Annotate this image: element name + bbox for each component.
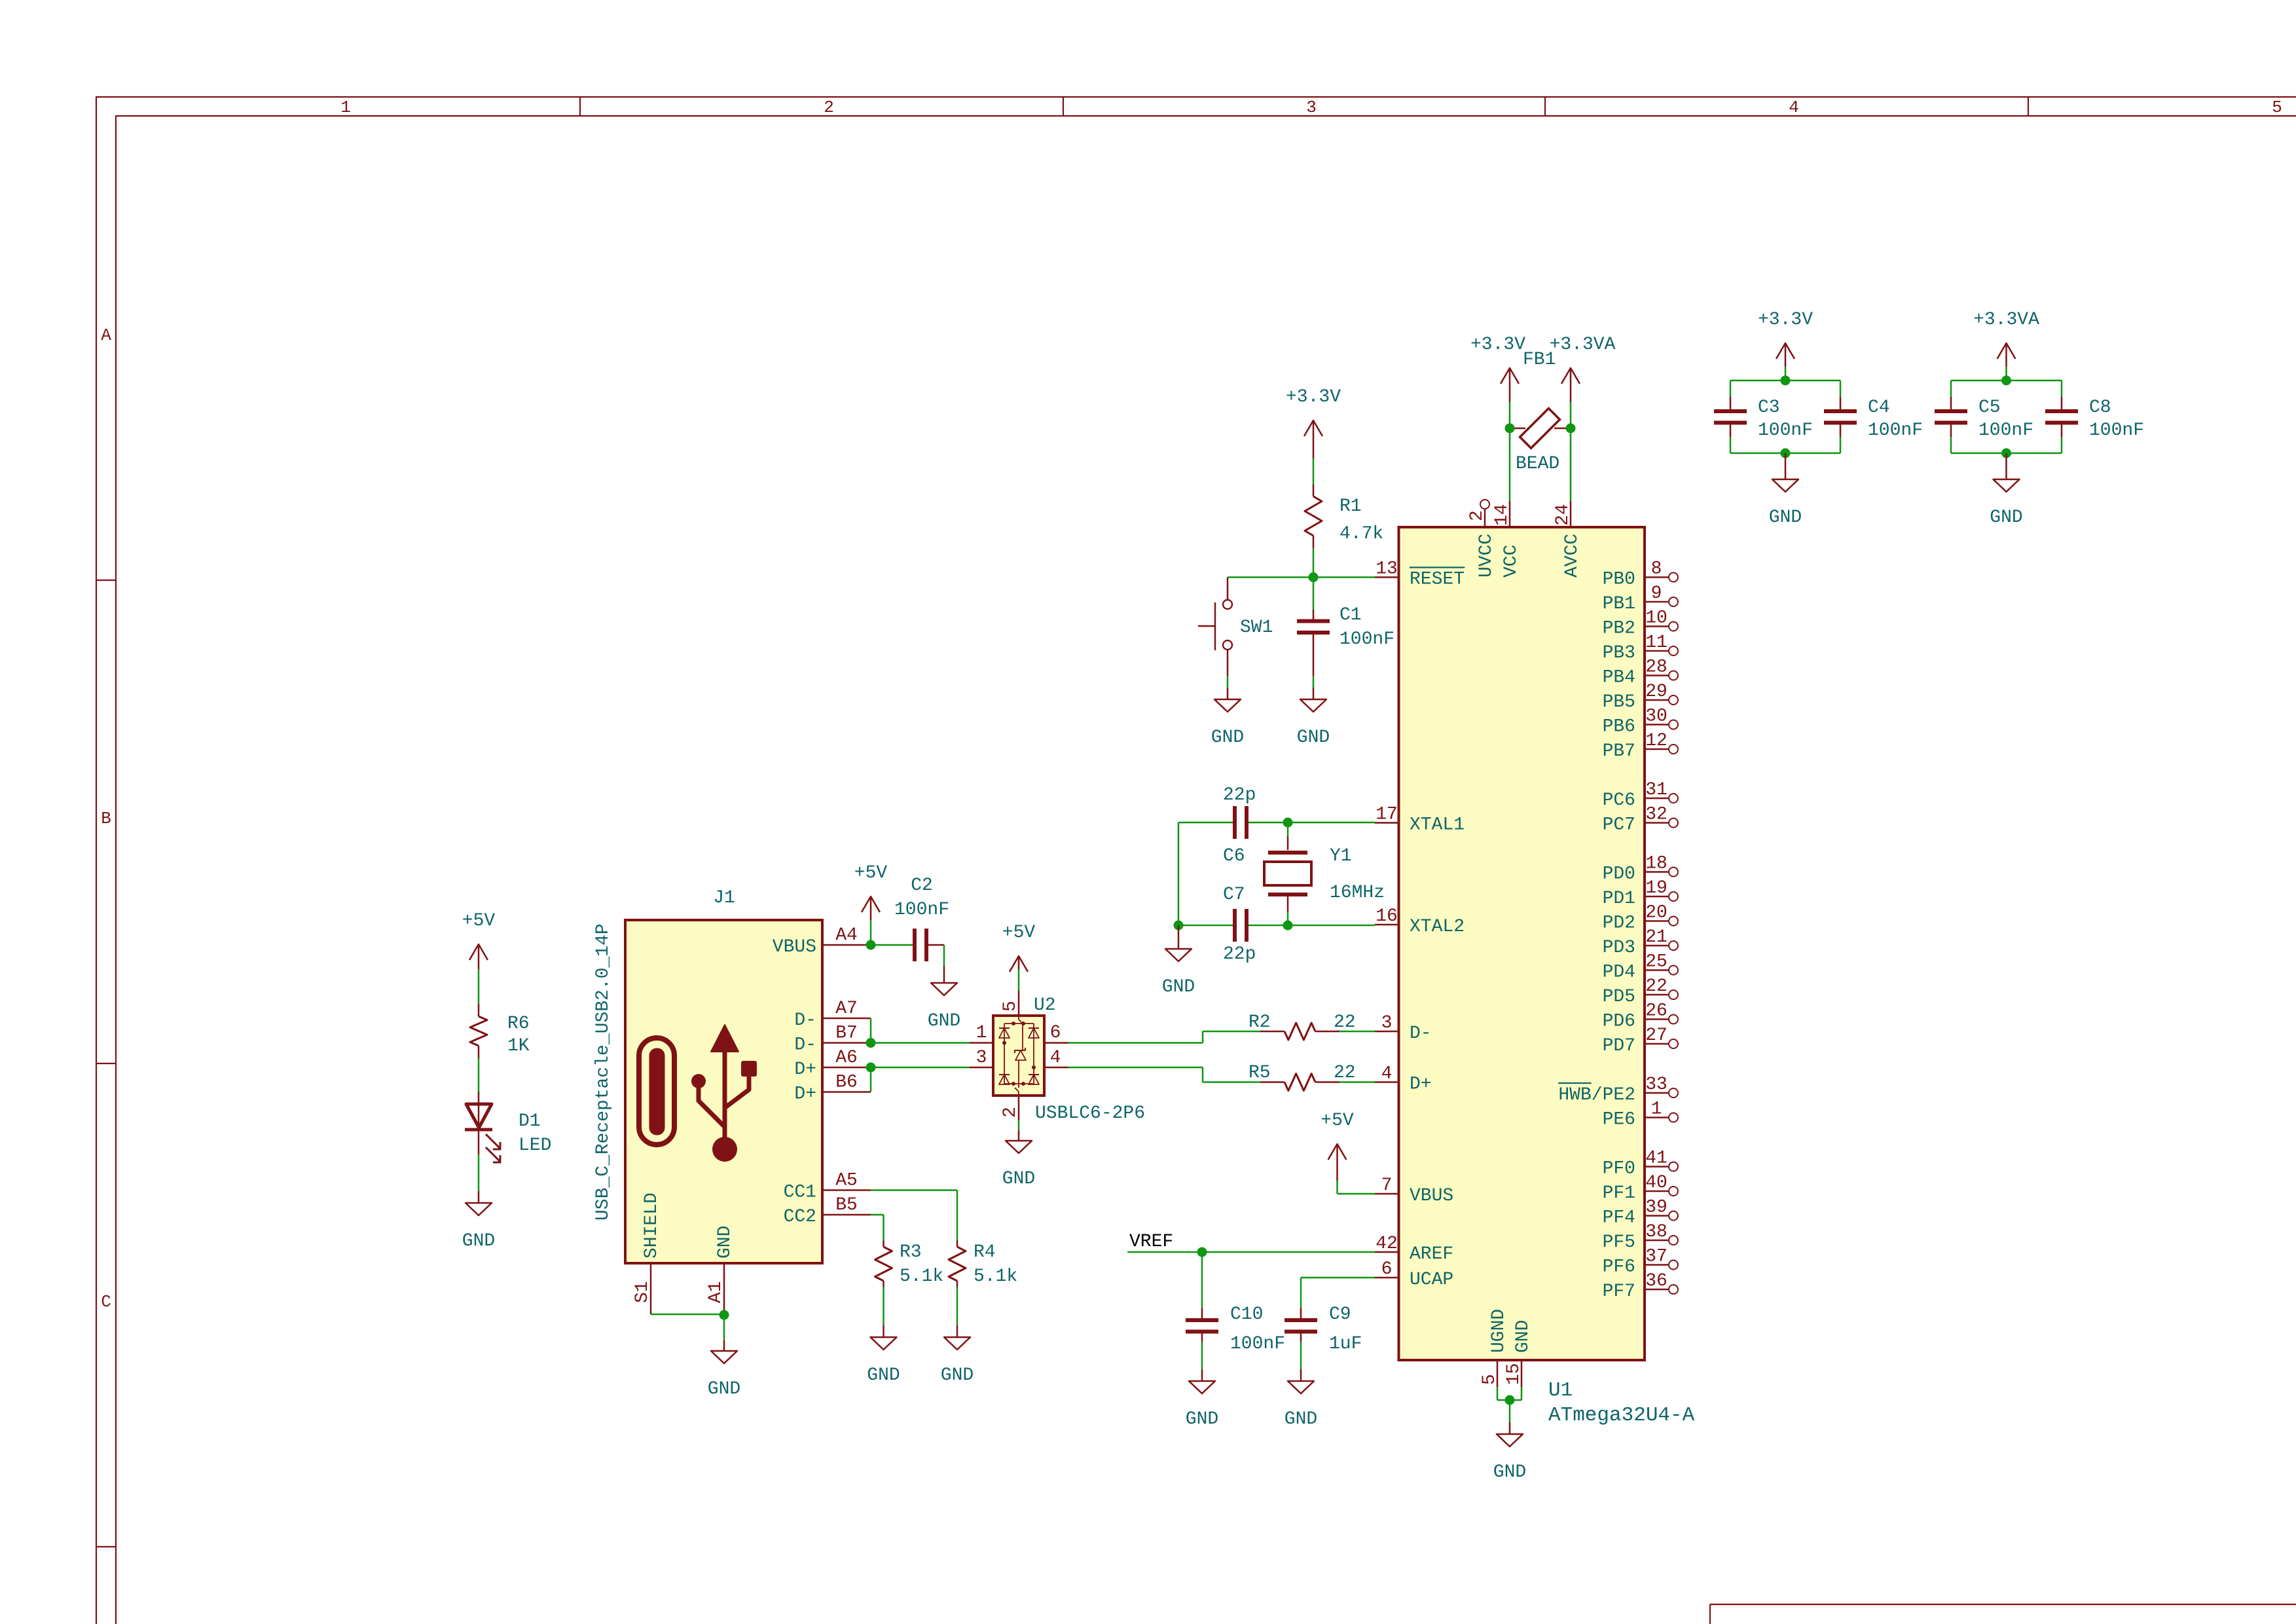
svg-text:PB4: PB4: [1603, 668, 1635, 688]
resistor R3 5.1k: [875, 1240, 944, 1287]
svg-text:6: 6: [1050, 1023, 1061, 1043]
svg-text:PD6: PD6: [1603, 1012, 1635, 1032]
svg-text:+5V: +5V: [1002, 923, 1036, 943]
svg-text:32: 32: [1645, 805, 1667, 825]
svg-text:PD1: PD1: [1603, 889, 1635, 909]
capacitor C1 100nF: [1297, 605, 1394, 676]
svg-text:15: 15: [1504, 1363, 1524, 1385]
junction: [1566, 424, 1576, 434]
wire: [1313, 676, 1315, 688]
svg-text:22p: 22p: [1223, 785, 1256, 805]
resistor R4 5.1k: [949, 1240, 1017, 1287]
ground: [928, 966, 960, 1031]
U1 pin 12 PB7: [1603, 731, 1678, 762]
U1 pin 22 PD5: [1603, 976, 1678, 1007]
wire: [1730, 437, 1840, 453]
svg-text:XTAL2: XTAL2: [1410, 917, 1465, 937]
wire D+ link: [871, 1067, 970, 1092]
power +3.3VA (FB1): [1550, 335, 1616, 428]
J1 pin B6 D+: [794, 1073, 871, 1105]
capacitor C6 22p: [1223, 785, 1256, 866]
svg-text:A: A: [101, 325, 111, 345]
svg-text:USBLC6-2P6: USBLC6-2P6: [1035, 1103, 1145, 1124]
ground: [867, 1325, 900, 1386]
U1 pin 31 PC6: [1603, 780, 1678, 811]
svg-text:GND: GND: [928, 1011, 960, 1031]
svg-text:J1: J1: [713, 888, 735, 908]
svg-text:24: 24: [1553, 504, 1573, 526]
svg-text:GND: GND: [708, 1379, 740, 1399]
svg-text:1K: 1K: [507, 1036, 530, 1056]
U1 pin 33 HWB/PE2: [1558, 1075, 1678, 1105]
junction: [2001, 449, 2011, 458]
wire UCAP: [1301, 1278, 1375, 1308]
wire: [1951, 437, 2062, 453]
svg-text:100nF: 100nF: [2089, 420, 2144, 441]
svg-text:38: 38: [1645, 1222, 1667, 1242]
switch SW1: [1198, 578, 1273, 676]
svg-text:+5V: +5V: [854, 863, 888, 883]
svg-text:100nF: 100nF: [1339, 629, 1394, 650]
svg-text:R3: R3: [900, 1242, 922, 1263]
svg-text:A1: A1: [706, 1281, 726, 1303]
U1 pin 13 RESET: [1375, 559, 1465, 590]
svg-text:GND: GND: [1211, 728, 1244, 748]
svg-text:22: 22: [1645, 976, 1667, 997]
svg-text:PC6: PC6: [1603, 790, 1635, 811]
capacitor C8 100nF: [2045, 397, 2144, 441]
svg-text:18: 18: [1645, 854, 1667, 874]
svg-text:B5: B5: [835, 1195, 858, 1215]
U1 pin 41 PF0: [1603, 1149, 1678, 1179]
svg-text:GND: GND: [1513, 1320, 1533, 1353]
svg-text:29: 29: [1645, 682, 1667, 702]
U1 pin 9 PB1: [1603, 583, 1678, 614]
svg-text:GND: GND: [715, 1226, 735, 1259]
junction: [1283, 921, 1293, 931]
svg-text:3: 3: [976, 1048, 987, 1068]
junction: [1505, 424, 1515, 434]
svg-text:CC1: CC1: [784, 1183, 816, 1203]
svg-text:13: 13: [1376, 559, 1398, 580]
svg-text:22: 22: [1334, 1063, 1356, 1083]
svg-text:+3.3V: +3.3V: [1286, 387, 1341, 407]
U1 pin 27 PD7: [1603, 1025, 1678, 1056]
svg-text:GND: GND: [1493, 1462, 1526, 1483]
svg-text:A4: A4: [835, 925, 858, 946]
capacitor C9 1uF: [1285, 1304, 1362, 1369]
svg-text:7: 7: [1381, 1175, 1393, 1196]
svg-text:30: 30: [1645, 707, 1667, 727]
U1 pin 16 XTAL2: [1375, 906, 1465, 937]
junction: [866, 1063, 876, 1073]
wire CC1 to R4: [871, 1190, 957, 1241]
svg-text:26: 26: [1645, 1001, 1667, 1022]
resistor R6 1K: [470, 1004, 530, 1058]
ground: [1769, 453, 1802, 528]
wire D- link: [871, 1018, 970, 1043]
U1 pin 36 PF7: [1603, 1271, 1678, 1302]
svg-text:25: 25: [1645, 952, 1667, 972]
junction: [1781, 376, 1791, 386]
U1 pin 26 PD6: [1603, 1001, 1678, 1032]
svg-text:AREF: AREF: [1410, 1244, 1453, 1264]
svg-text:PB0: PB0: [1603, 570, 1635, 590]
U1 pin 10 PB2: [1603, 608, 1678, 639]
U1 pin 28 PB4: [1603, 657, 1678, 688]
wire: [1570, 428, 1572, 501]
svg-text:PD5: PD5: [1603, 987, 1635, 1007]
J1 pin A6 D+: [794, 1048, 871, 1080]
ferrite bead FB1 BEAD: [1510, 350, 1571, 474]
resistor R2 22: [1248, 1012, 1356, 1040]
svg-text:C3: C3: [1758, 397, 1780, 418]
U1 pin 8 PB0: [1603, 559, 1678, 590]
svg-text:PF6: PF6: [1603, 1257, 1635, 1278]
power +3.3V (R1 branch): [1286, 387, 1341, 458]
ground: [1162, 925, 1195, 997]
resistor R1 4.7k: [1305, 485, 1383, 548]
svg-text:3: 3: [1381, 1013, 1393, 1033]
U1 pin 29 PB5: [1603, 682, 1678, 712]
svg-text:4: 4: [1789, 98, 1799, 117]
capacitor C3 100nF: [1714, 397, 1813, 441]
svg-text:D1: D1: [519, 1111, 541, 1132]
svg-text:D-: D-: [794, 1035, 816, 1056]
wire: [478, 969, 480, 1004]
svg-text:PC7: PC7: [1603, 815, 1635, 836]
svg-text:4: 4: [1381, 1064, 1393, 1084]
svg-text:C9: C9: [1329, 1304, 1351, 1325]
svg-text:20: 20: [1645, 903, 1667, 923]
svg-text:C2: C2: [911, 876, 933, 896]
svg-text:AVCC: AVCC: [1562, 534, 1582, 578]
svg-text:PE6: PE6: [1603, 1110, 1635, 1130]
U1 pin 40 PF1: [1603, 1173, 1678, 1204]
svg-text:D-: D-: [1410, 1024, 1432, 1044]
U1 pin 15 GND: [1504, 1320, 1533, 1387]
svg-text:1: 1: [1651, 1099, 1662, 1120]
svg-text:C6: C6: [1223, 846, 1245, 866]
wire: [883, 1287, 884, 1325]
svg-text:100nF: 100nF: [1978, 420, 2033, 441]
power +5V (VBUS): [1321, 1111, 1354, 1181]
junction: [866, 940, 876, 950]
svg-text:39: 39: [1645, 1198, 1667, 1218]
svg-text:CC2: CC2: [784, 1207, 816, 1227]
ground: [462, 1191, 495, 1251]
svg-text:10: 10: [1645, 608, 1667, 629]
capacitor C7 22p: [1223, 885, 1256, 965]
svg-text:PB2: PB2: [1603, 619, 1635, 639]
svg-text:PD4: PD4: [1603, 963, 1635, 983]
U1 pin 14 VCC: [1492, 501, 1522, 578]
U1 pin 1 PE6: [1603, 1099, 1678, 1130]
svg-text:VBUS: VBUS: [773, 937, 816, 957]
svg-text:PF0: PF0: [1603, 1159, 1635, 1179]
svg-text:33: 33: [1645, 1075, 1667, 1095]
svg-text:16MHz: 16MHz: [1330, 883, 1385, 903]
svg-text:SHIELD: SHIELD: [642, 1192, 662, 1259]
U1 pin 37 PF6: [1603, 1247, 1678, 1278]
U1 pin 25 PD4: [1603, 952, 1678, 983]
svg-text:12: 12: [1645, 731, 1667, 751]
svg-text:8: 8: [1651, 559, 1662, 580]
svg-text:C8: C8: [2089, 397, 2111, 418]
svg-text:RESET: RESET: [1410, 570, 1465, 590]
U2 pin 3: [970, 1048, 993, 1068]
U1 pin 5 UGND: [1480, 1309, 1509, 1387]
U2 pin 6: [1044, 1023, 1068, 1043]
svg-text:42: 42: [1376, 1234, 1398, 1254]
svg-text:5.1k: 5.1k: [900, 1266, 943, 1287]
svg-text:22: 22: [1334, 1012, 1356, 1033]
svg-text:LED: LED: [519, 1135, 551, 1156]
wire: [1313, 458, 1315, 485]
svg-text:21: 21: [1645, 927, 1667, 948]
power +5V (U2): [1002, 923, 1036, 991]
svg-text:31: 31: [1645, 780, 1667, 800]
svg-text:UGND: UGND: [1489, 1309, 1509, 1353]
svg-text:Y1: Y1: [1330, 846, 1352, 866]
svg-text:PB6: PB6: [1603, 717, 1635, 737]
wire: [478, 1154, 480, 1191]
wire CC2 to R3: [871, 1215, 884, 1240]
wire: [651, 1314, 724, 1316]
U1 pin 3 D-: [1375, 1013, 1432, 1044]
junction: [1309, 572, 1319, 582]
wire: [1951, 380, 2062, 397]
svg-text:A5: A5: [835, 1171, 858, 1191]
wire: [1497, 1387, 1522, 1422]
svg-text:PD2: PD2: [1603, 913, 1635, 934]
U1 pin 38 PF5: [1603, 1222, 1678, 1253]
wire: [1339, 1031, 1375, 1033]
svg-text:17: 17: [1376, 805, 1398, 825]
J1 pin A4 VBUS: [773, 925, 871, 957]
U1 pin 30 PB6: [1603, 707, 1678, 737]
svg-text:27: 27: [1645, 1025, 1667, 1046]
junction: [1505, 1395, 1515, 1405]
ground: [1990, 453, 2022, 528]
svg-text:D+: D+: [794, 1084, 816, 1105]
svg-text:14: 14: [1492, 504, 1512, 526]
power +5V (C2 branch): [854, 863, 888, 945]
svg-text:PB3: PB3: [1603, 643, 1635, 663]
svg-text:R1: R1: [1339, 496, 1362, 517]
svg-text:C7: C7: [1223, 885, 1245, 905]
ground: [1211, 688, 1244, 748]
U1 pin 24 AVCC: [1553, 501, 1582, 578]
svg-text:PD3: PD3: [1603, 938, 1635, 958]
svg-text:C: C: [101, 1292, 111, 1312]
power +3.3VA: [1973, 310, 2039, 380]
svg-text:22p: 22p: [1223, 944, 1256, 965]
svg-text:1: 1: [976, 1023, 987, 1043]
svg-text:5: 5: [2272, 98, 2282, 117]
svg-text:2: 2: [1467, 510, 1487, 521]
junction: [1197, 1247, 1207, 1257]
wire AREF: [1127, 1251, 1375, 1253]
U1 pin 4 D+: [1375, 1064, 1432, 1095]
svg-text:5: 5: [1480, 1374, 1500, 1385]
svg-text:2: 2: [824, 98, 834, 117]
svg-text:5: 5: [1000, 1001, 1021, 1012]
ground: [708, 1340, 740, 1399]
wire XTAL2: [1178, 925, 1375, 927]
svg-text:GND: GND: [1285, 1409, 1317, 1430]
svg-text:6: 6: [1381, 1259, 1393, 1280]
power +3.3V (FB1): [1470, 335, 1525, 428]
svg-text:41: 41: [1645, 1149, 1667, 1169]
ground: [1002, 1130, 1035, 1189]
ground: [1297, 688, 1330, 748]
svg-text:40: 40: [1645, 1173, 1667, 1193]
svg-text:100nF: 100nF: [1230, 1334, 1285, 1354]
wire: [1178, 822, 1180, 925]
svg-text:C10: C10: [1230, 1304, 1263, 1325]
wire RESET: [1228, 576, 1375, 578]
capacitor C5 100nF: [1935, 397, 2033, 441]
svg-text:D+: D+: [1410, 1075, 1432, 1095]
J1 pin A7 D-: [794, 999, 871, 1031]
svg-text:GND: GND: [462, 1231, 495, 1251]
U1 pin 42 AREF: [1375, 1234, 1453, 1264]
J1 pin S1 SHIELD: [632, 1192, 662, 1314]
svg-text:PD7: PD7: [1603, 1036, 1635, 1056]
U2 pin 1: [970, 1023, 993, 1043]
svg-text:100nF: 100nF: [894, 900, 949, 920]
capacitor C10 100nF: [1186, 1252, 1285, 1369]
U2 internal diodes: [999, 1016, 1039, 1096]
U1 pin 11 PB3: [1603, 633, 1678, 663]
J1 pin B5 CC2: [784, 1195, 871, 1227]
svg-text:C4: C4: [1868, 397, 1890, 418]
svg-text:VCC: VCC: [1501, 545, 1522, 578]
wire: [1227, 676, 1229, 688]
svg-text:B6: B6: [835, 1073, 858, 1093]
svg-text:ATmega32U4-A: ATmega32U4-A: [1548, 1404, 1695, 1427]
svg-text:D+: D+: [794, 1060, 816, 1080]
svg-text:11: 11: [1645, 633, 1667, 653]
svg-text:2: 2: [1000, 1107, 1021, 1118]
wire D+ to R5: [1068, 1067, 1260, 1082]
ground: [1493, 1422, 1526, 1483]
ground: [1186, 1369, 1218, 1430]
svg-text:A6: A6: [835, 1048, 858, 1068]
svg-text:GND: GND: [941, 1365, 974, 1386]
svg-text:XTAL1: XTAL1: [1410, 815, 1465, 836]
junction: [1283, 818, 1293, 828]
U1 pin 20 PD2: [1603, 903, 1678, 934]
svg-text:USB_C_Receptacle_USB2.0_14P: USB_C_Receptacle_USB2.0_14P: [593, 923, 613, 1221]
USB logo: [639, 1025, 757, 1162]
power +3.3V: [1758, 310, 1813, 380]
svg-text:R5: R5: [1248, 1063, 1271, 1083]
svg-text:FB1: FB1: [1523, 350, 1556, 370]
wire VBUS: [871, 944, 915, 946]
wire D- to R2: [1068, 1031, 1260, 1043]
svg-text:PB5: PB5: [1603, 692, 1635, 712]
wire: [478, 1058, 480, 1092]
svg-text:B7: B7: [835, 1024, 858, 1044]
svg-text:BEAD: BEAD: [1516, 454, 1559, 474]
svg-text:19: 19: [1645, 878, 1667, 898]
svg-text:VREF: VREF: [1129, 1232, 1173, 1252]
svg-text:+3.3VA: +3.3VA: [1973, 310, 2039, 330]
wire: [926, 945, 944, 966]
svg-text:HWB/PE2: HWB/PE2: [1558, 1085, 1635, 1105]
svg-text:GND: GND: [1990, 507, 2022, 528]
svg-text:A7: A7: [835, 999, 858, 1019]
svg-text:1: 1: [340, 98, 351, 117]
IC U1 ATmega32U4-A: [1399, 527, 1695, 1427]
svg-text:SW1: SW1: [1240, 618, 1273, 638]
wire XTAL1: [1178, 822, 1375, 824]
svg-text:U2: U2: [1034, 995, 1056, 1016]
crystal Y1 16MHz: [1264, 822, 1385, 925]
J1 pin A5 CC1: [784, 1171, 871, 1203]
svg-text:100nF: 100nF: [1868, 420, 1923, 441]
power +5V (R6 branch): [462, 911, 496, 969]
svg-text:GND: GND: [1297, 728, 1330, 748]
svg-text:PB7: PB7: [1603, 741, 1635, 762]
U2 pin 4: [1044, 1048, 1068, 1068]
svg-text:UCAP: UCAP: [1410, 1270, 1453, 1290]
svg-text:B: B: [101, 809, 111, 828]
svg-text:GND: GND: [867, 1365, 900, 1386]
svg-text:PF7: PF7: [1603, 1282, 1635, 1302]
svg-text:+3.3VA: +3.3VA: [1550, 335, 1616, 355]
svg-text:UVCC: UVCC: [1476, 534, 1497, 578]
svg-text:R2: R2: [1248, 1012, 1271, 1033]
U1 pin 39 PF4: [1603, 1198, 1678, 1228]
svg-text:3: 3: [1306, 98, 1317, 117]
U1 pin 32 PC7: [1603, 805, 1678, 836]
svg-text:36: 36: [1645, 1271, 1667, 1291]
svg-text:PB1: PB1: [1603, 594, 1635, 614]
junction: [1174, 921, 1184, 931]
svg-text:C5: C5: [1978, 397, 2001, 418]
capacitor C4 100nF: [1824, 397, 1923, 441]
svg-text:37: 37: [1645, 1247, 1667, 1267]
U2 pin 5: [1000, 991, 1021, 1016]
svg-text:4: 4: [1050, 1048, 1061, 1068]
junction: [720, 1310, 729, 1320]
U1 pin 2 UVCC: [1467, 500, 1497, 578]
svg-text:VBUS: VBUS: [1410, 1186, 1453, 1206]
svg-text:5.1k: 5.1k: [974, 1266, 1017, 1287]
svg-text:S1: S1: [632, 1281, 653, 1303]
svg-text:100nF: 100nF: [1758, 420, 1813, 441]
svg-text:16: 16: [1376, 906, 1398, 927]
capacitor C2 100nF: [894, 876, 949, 961]
svg-text:+3.3V: +3.3V: [1758, 310, 1813, 330]
svg-text:PF4: PF4: [1603, 1208, 1635, 1228]
junction: [1781, 449, 1791, 458]
ground: [941, 1325, 974, 1386]
svg-text:1uF: 1uF: [1329, 1334, 1362, 1354]
junction: [2001, 376, 2011, 386]
svg-text:+3.3V: +3.3V: [1470, 335, 1525, 355]
svg-text:PF1: PF1: [1603, 1183, 1635, 1204]
svg-text:+5V: +5V: [462, 911, 496, 931]
U1 pin 21 PD3: [1603, 927, 1678, 958]
svg-text:28: 28: [1645, 657, 1667, 678]
U1 pin 7 VBUS: [1375, 1175, 1453, 1206]
wire: [1730, 380, 1840, 397]
junction: [866, 1038, 876, 1048]
